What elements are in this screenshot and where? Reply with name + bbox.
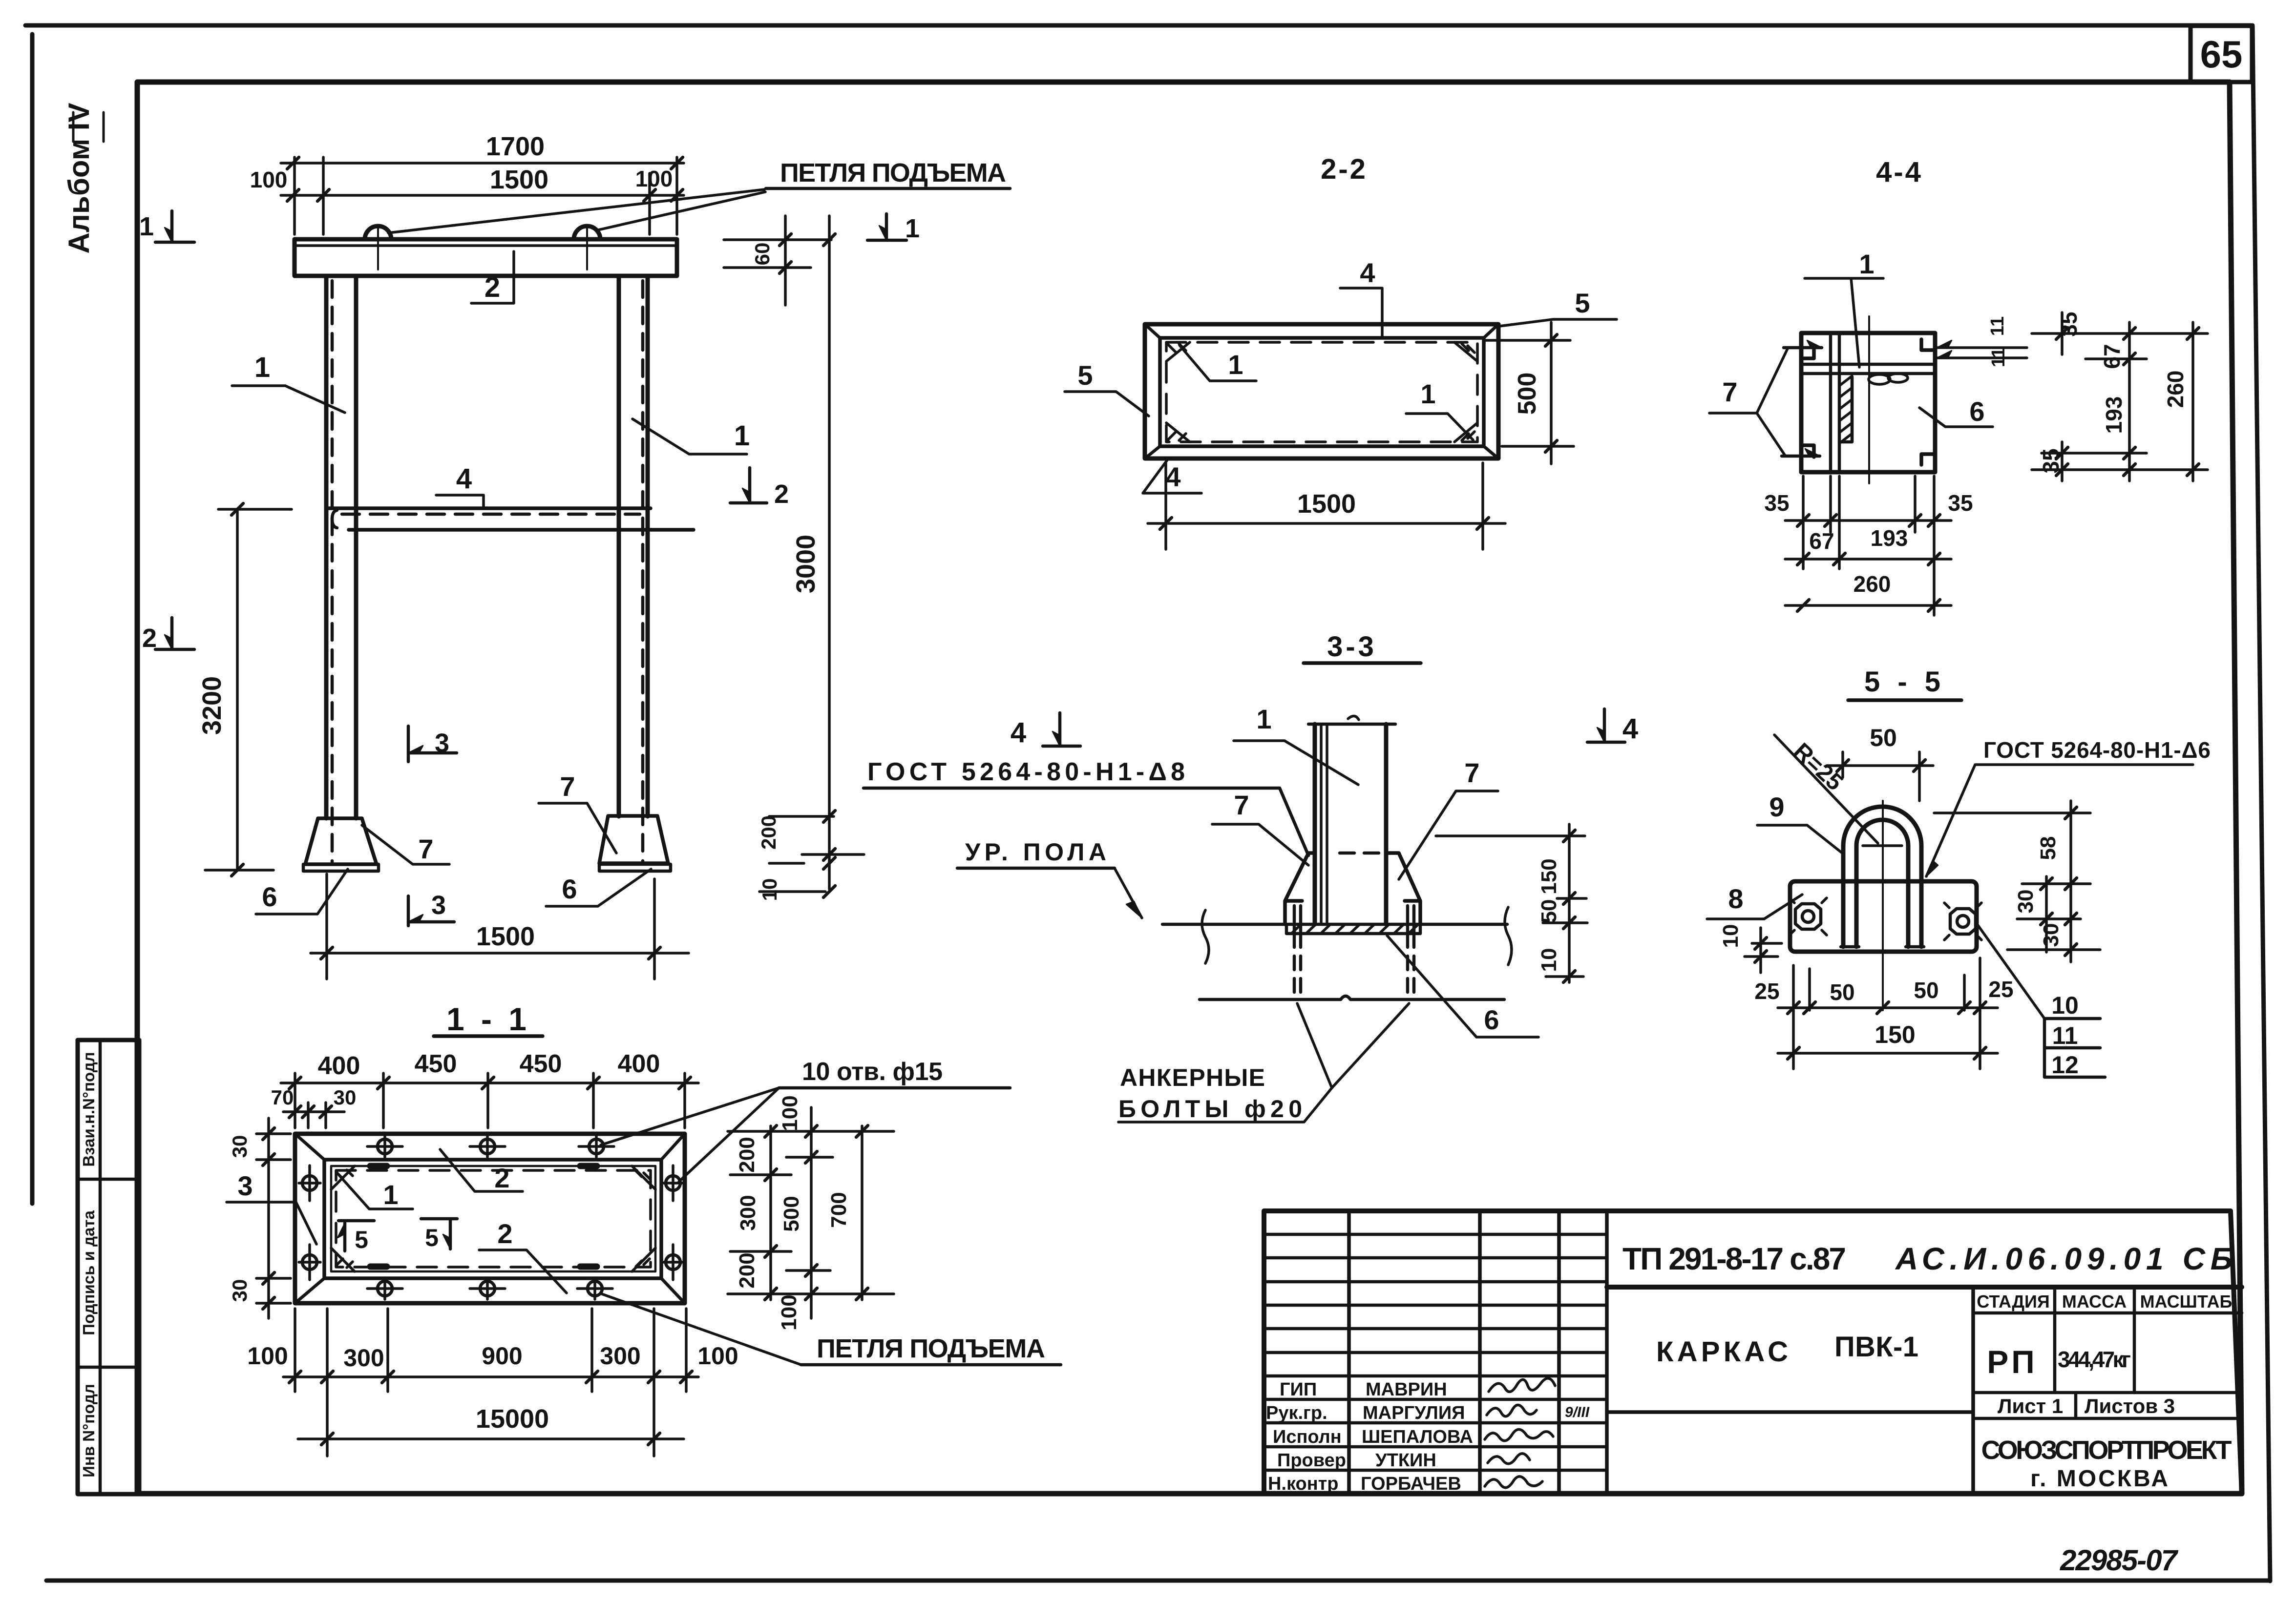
svg-text:30: 30 [2039, 923, 2063, 947]
plan left dims 30 30 [267, 1118, 270, 1318]
svg-text:УТКИН: УТКИН [1375, 1450, 1436, 1471]
position callout 10 11 12 [1978, 925, 2044, 1019]
leader lines to loops [388, 189, 765, 233]
bolt hole top row [299, 1136, 684, 1299]
svg-text:50: 50 [1830, 979, 1854, 1005]
svg-text:100: 100 [778, 1095, 802, 1131]
dim chain right 150 50 10 [1568, 824, 1571, 982]
list row [1973, 1393, 2242, 1418]
bottom dim 150 5-5 [1778, 1052, 1998, 1055]
svg-text:3: 3 [237, 1170, 253, 1201]
svg-text:4-4: 4-4 [1876, 156, 1923, 188]
middle tie beam item 4 [328, 506, 651, 510]
svg-text:1: 1 [734, 420, 750, 452]
svg-text:10: 10 [1537, 948, 1561, 972]
svg-text:100: 100 [250, 167, 288, 192]
corner gusset welds [331, 1166, 655, 1271]
svg-text:1: 1 [254, 352, 270, 383]
weld ovals 4-4 [1869, 375, 1890, 384]
svg-text:200: 200 [735, 1252, 759, 1288]
plan dim 15000 [298, 1437, 684, 1440]
svg-text:Н.контр: Н.контр [1268, 1474, 1339, 1494]
svg-text:67: 67 [1809, 528, 1834, 554]
svg-text:6: 6 [562, 874, 577, 904]
svg-text:ПЕТЛЯ ПОДЪЕМА: ПЕТЛЯ ПОДЪЕМА [780, 158, 1006, 187]
svg-text:58: 58 [2036, 836, 2060, 860]
page outer border right [2253, 25, 2270, 1581]
svg-text:10 отв. ф15: 10 отв. ф15 [802, 1058, 943, 1086]
svg-text:6: 6 [1484, 1004, 1499, 1035]
foundation bottom edge [1200, 996, 1504, 999]
svg-text:1: 1 [139, 212, 154, 241]
right section divider [1971, 1287, 1975, 1494]
signatures script [1489, 1378, 1555, 1392]
outer slab outline [295, 1134, 685, 1303]
lifting loop right [574, 226, 600, 239]
svg-text:193: 193 [1871, 525, 1908, 551]
svg-text:4: 4 [1011, 717, 1026, 749]
plan right dim chain 200 300 200 [769, 1126, 772, 1300]
svg-text:ТП 291-8-17 с.87: ТП 291-8-17 с.87 [1622, 1241, 1846, 1276]
svg-text:10: 10 [758, 878, 781, 901]
outer outline 2-2 [1145, 324, 1498, 458]
svg-text:400: 400 [618, 1050, 660, 1078]
title block outer [1264, 1211, 2242, 1494]
svg-text:2: 2 [774, 479, 789, 509]
hidden flange dashed 2-2 [1166, 342, 1477, 442]
svg-text:150: 150 [1875, 1021, 1915, 1048]
bottom extensions 4-4 [1803, 476, 1934, 615]
mitre diagonals 2-2 [1145, 324, 1498, 458]
plan right dim 700 [861, 1126, 864, 1300]
svg-text:60: 60 [751, 243, 774, 266]
svg-text:Провер: Провер [1277, 1450, 1346, 1471]
svg-text:Взаи.н.N°подл: Взаи.н.N°подл [80, 1052, 98, 1166]
weld hatch strip 4-4 [1839, 377, 1852, 442]
inner bevel rectangle [324, 1160, 661, 1278]
svg-text:193: 193 [2101, 396, 2127, 434]
U loop bar item 9 [1843, 807, 1921, 947]
svg-text:1: 1 [1859, 249, 1874, 279]
inner bevel rect 2-2 [1160, 338, 1484, 446]
right column item 1 [619, 276, 648, 816]
dim 1700 top [281, 162, 684, 165]
svg-text:7: 7 [1464, 757, 1479, 788]
svg-text:35: 35 [1948, 490, 1973, 516]
svg-text:СТАДИЯ: СТАДИЯ [1977, 1291, 2050, 1312]
page outer border top [25, 23, 2251, 28]
plan top dim line 400 450 450 400 [281, 1082, 698, 1084]
svg-text:ГИП: ГИП [1280, 1379, 1317, 1400]
svg-text:100: 100 [697, 1342, 738, 1370]
svg-text:70: 70 [271, 1086, 294, 1109]
label 2 beam leader [471, 251, 514, 303]
column shaft 3-3 [1315, 724, 1386, 924]
svg-text:50: 50 [1914, 978, 1938, 1003]
svg-text:ШЕПАЛОВА: ШЕПАЛОВА [1362, 1427, 1473, 1447]
svg-text:1500: 1500 [490, 165, 548, 194]
dim 10 plate left 5-5 [1759, 928, 1762, 973]
radius leader R=25 [1774, 735, 1878, 843]
plan right dim chain 100 500 100 [810, 1107, 813, 1318]
svg-text:1: 1 [1228, 349, 1243, 380]
svg-text:БОЛТЫ ф20: БОЛТЫ ф20 [1118, 1095, 1302, 1123]
flange lips 4-4 [1801, 339, 1935, 465]
page outer border left [30, 34, 35, 1204]
svg-text:1: 1 [1256, 704, 1271, 734]
svg-text:300: 300 [736, 1195, 760, 1230]
svg-text:10: 10 [2051, 992, 2079, 1019]
svg-text:25: 25 [1754, 978, 1779, 1004]
svg-text:2: 2 [494, 1163, 509, 1193]
dim 35 lower right 4-4 [2061, 442, 2064, 481]
svg-text:4: 4 [1360, 257, 1375, 288]
svg-text:7: 7 [1722, 376, 1737, 407]
section mark 5 left [338, 1221, 374, 1251]
svg-text:ПЕТЛЯ ПОДЪЕМА: ПЕТЛЯ ПОДЪЕМА [817, 1334, 1045, 1363]
svg-text:6: 6 [1969, 396, 1984, 427]
svg-text:1: 1 [383, 1179, 398, 1210]
dim 260 right 4-4 [2191, 322, 2194, 481]
bolt hole right column [666, 1176, 680, 1190]
dim 1500 bottom [311, 952, 689, 955]
bolt right 5-5 [1944, 903, 1981, 940]
svg-text:7: 7 [1234, 790, 1249, 820]
hidden channel flange dashed [336, 1170, 651, 1267]
svg-text:2: 2 [484, 271, 500, 303]
svg-text:260: 260 [1854, 571, 1891, 597]
svg-text:344,47кг: 344,47кг [2058, 1347, 2131, 1372]
mitre corner diagonals [295, 1134, 685, 1303]
signature names column texts [1266, 1379, 1473, 1494]
bottom dim 67 193 4-4 [1785, 558, 1951, 561]
svg-text:Лист 1: Лист 1 [1998, 1395, 2063, 1417]
svg-text:100: 100 [247, 1342, 288, 1370]
svg-text:65: 65 [2200, 33, 2243, 76]
svg-text:25: 25 [1988, 977, 2013, 1002]
top slab beam item 2 [295, 239, 677, 276]
svg-text:700: 700 [827, 1192, 851, 1228]
dim 200 right chain [759, 816, 834, 892]
signature table verticals [1349, 1211, 1607, 1494]
svg-text:11: 11 [2052, 1022, 2078, 1049]
svg-text:ПВК-1: ПВК-1 [1834, 1331, 1918, 1363]
bottom dim 25 50 50 25 5-5 [1778, 1006, 1998, 1009]
svg-text:11: 11 [1987, 316, 2008, 336]
anchor bolt right [1408, 906, 1414, 934]
svg-text:9/III: 9/III [1565, 1404, 1590, 1420]
left foot shoe item 6 [305, 818, 377, 864]
plan bottom dim line 100 300 900 300 100 [283, 1375, 698, 1378]
stadia massa masshtab header [1973, 1287, 2242, 1393]
left column item 1 [326, 276, 356, 818]
svg-text:2: 2 [497, 1218, 512, 1249]
svg-text:Альбом IV: Альбом IV [63, 103, 95, 254]
svg-text:3: 3 [431, 891, 446, 920]
bottom extensions 5-5 [1793, 958, 1980, 1069]
bolt hole bottom row [378, 1281, 392, 1296]
svg-text:5 - 5: 5 - 5 [1864, 666, 1945, 698]
svg-text:1: 1 [905, 214, 920, 243]
svg-text:5: 5 [1575, 288, 1590, 318]
svg-text:3200: 3200 [197, 676, 227, 735]
centre line 5-5 [1882, 801, 1884, 1010]
dim 60 slab right [784, 216, 787, 305]
svg-text:12: 12 [2051, 1051, 2079, 1079]
svg-text:2-2: 2-2 [1321, 153, 1368, 185]
svg-text:1500: 1500 [1297, 489, 1356, 519]
svg-text:ГОРБАЧЕВ: ГОРБАЧЕВ [1361, 1474, 1461, 1494]
svg-text:300: 300 [343, 1344, 384, 1372]
svg-text:4: 4 [456, 463, 472, 495]
svg-text:1700: 1700 [486, 132, 545, 161]
corner gussets 2-2 [1166, 342, 1477, 442]
svg-text:150: 150 [1537, 858, 1561, 894]
loop leader bottom [602, 1294, 801, 1365]
extension lines top dims [295, 157, 677, 234]
svg-text:10: 10 [1719, 924, 1743, 948]
svg-text:Исполн: Исполн [1273, 1427, 1342, 1447]
centre line 4-4 [1868, 316, 1870, 483]
svg-text:8: 8 [1728, 883, 1743, 914]
svg-text:Подпись и дата: Подпись и дата [80, 1210, 98, 1335]
svg-text:МАСШТАБ: МАСШТАБ [2140, 1291, 2233, 1312]
section mark 5 right [421, 1219, 457, 1249]
name cell KARKAS PVK-1 [1607, 1410, 1973, 1414]
dim 3200 left [236, 509, 239, 870]
svg-text:4: 4 [1622, 713, 1638, 745]
svg-text:50: 50 [1537, 899, 1561, 923]
svg-text:30: 30 [334, 1086, 357, 1109]
svg-text:450: 450 [415, 1050, 457, 1078]
left stamp divider rows [78, 1179, 139, 1367]
dim 500 right 2-2 [1550, 322, 1553, 464]
right foot shoe item 6 [599, 816, 668, 863]
dim 1500 below 2-2 [1148, 522, 1505, 525]
svg-text:СОЮЗСПОРТПРОЕКТ: СОЮЗСПОРТПРОЕКТ [1981, 1436, 2232, 1465]
lifting loop left [365, 226, 391, 239]
header cell line [1607, 1285, 2242, 1290]
page outer border bottom [46, 1579, 2270, 1583]
small dims 11 11 right top 4-4 [1937, 348, 2027, 358]
svg-text:Рук.гр.: Рук.гр. [1266, 1403, 1327, 1423]
dim 50 top 5-5 [1827, 764, 1933, 767]
svg-text:АНКЕРНЫЕ: АНКЕРНЫЕ [1120, 1064, 1265, 1091]
svg-text:5: 5 [1077, 360, 1093, 391]
svg-text:1500: 1500 [476, 922, 535, 951]
floor level lines 3-3 [1162, 923, 1507, 926]
svg-text:9: 9 [1769, 791, 1784, 822]
bolt hole left column [302, 1176, 317, 1190]
svg-text:200: 200 [757, 815, 780, 850]
left stamp divider vertical [99, 1040, 102, 1494]
svg-text:г. МОСКВА: г. МОСКВА [2030, 1466, 2170, 1492]
flange plate double line 4-4 [1802, 364, 1934, 374]
anchor bolt left [1294, 906, 1301, 934]
svg-text:МАВРИН: МАВРИН [1366, 1379, 1447, 1400]
lifting loops seen in plan [370, 1166, 597, 1267]
svg-text:30: 30 [2014, 890, 2038, 914]
right chain ticks 4-4 [2032, 333, 2208, 470]
svg-text:7: 7 [418, 833, 433, 864]
svg-text:11: 11 [1988, 348, 2009, 367]
svg-text:100: 100 [777, 1294, 801, 1330]
hidden line at cone top 3-3 [1340, 852, 1383, 855]
svg-text:1: 1 [1420, 378, 1435, 409]
svg-text:300: 300 [600, 1342, 640, 1370]
channel outline 4-4 [1801, 333, 1935, 472]
base plate hatched 3-3 [1286, 924, 1420, 934]
plan sub dims 70 30 [283, 1110, 344, 1113]
dim 67 193 right 4-4 [2128, 322, 2131, 481]
svg-text:260: 260 [2163, 371, 2188, 408]
svg-text:Инв N°подл: Инв N°подл [80, 1384, 98, 1478]
dim 3000 right [828, 216, 831, 889]
bolt left 5-5 [1790, 898, 1827, 935]
signature table rows [1264, 1234, 1607, 1470]
svg-text:3-3: 3-3 [1327, 631, 1377, 663]
svg-text:4: 4 [1165, 461, 1180, 492]
anchor plate item 8 [1790, 881, 1977, 952]
svg-text:500: 500 [779, 1196, 803, 1231]
svg-text:30: 30 [228, 1279, 251, 1302]
svg-text:1 - 1: 1 - 1 [446, 1001, 530, 1037]
svg-text:ГОСТ 5264-80-Н1-Δ6: ГОСТ 5264-80-Н1-Δ6 [1983, 737, 2211, 763]
hole leader lines [601, 1088, 779, 1182]
svg-text:450: 450 [520, 1050, 562, 1078]
right dims 58 30 30 5-5 [1934, 813, 2100, 950]
svg-text:22985-07: 22985-07 [2060, 1544, 2179, 1577]
svg-text:Листов 3: Листов 3 [2085, 1395, 2175, 1417]
svg-text:3000: 3000 [791, 535, 821, 593]
foundation break squiggles [1202, 910, 1209, 963]
bottom dim 35 35 4-4 [1785, 519, 1951, 522]
dim 1500 and 100s second line [281, 194, 684, 197]
svg-text:МАССА: МАССА [2062, 1291, 2127, 1312]
left stamp column box [78, 1040, 139, 1494]
svg-text:15000: 15000 [476, 1404, 549, 1434]
svg-text:30: 30 [228, 1135, 251, 1158]
channel frame thin line [331, 1166, 655, 1271]
svg-text:7: 7 [560, 771, 575, 802]
dim 35 top right 4-4 [2061, 312, 2064, 354]
svg-text:200: 200 [735, 1137, 759, 1172]
svg-text:5: 5 [355, 1226, 368, 1253]
svg-text:500: 500 [1513, 373, 1541, 415]
svg-text:67: 67 [2099, 344, 2125, 369]
base cone item 7 [1285, 853, 1420, 924]
svg-text:РП: РП [1987, 1344, 2037, 1380]
web plate verticals 4-4 [1831, 333, 1839, 470]
svg-text:400: 400 [318, 1052, 360, 1080]
sheet number box 65 [2191, 26, 2252, 82]
svg-text:100: 100 [635, 166, 673, 191]
svg-text:50: 50 [1870, 724, 1897, 751]
svg-text:ГОСТ 5264-80-Н1-Δ8: ГОСТ 5264-80-Н1-Δ8 [867, 758, 1185, 786]
svg-text:35: 35 [1764, 490, 1789, 516]
svg-text:5: 5 [425, 1224, 439, 1251]
bottom dim 260 4-4 [1785, 604, 1951, 607]
svg-text:900: 900 [482, 1342, 522, 1370]
svg-text:6: 6 [262, 881, 277, 912]
svg-text:МАРГУЛИЯ: МАРГУЛИЯ [1363, 1403, 1465, 1423]
